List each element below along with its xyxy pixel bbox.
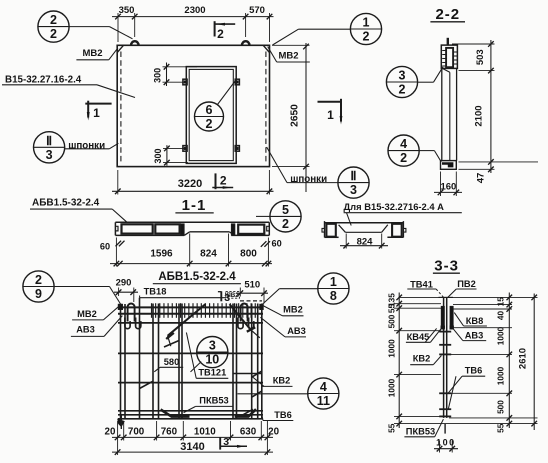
svg-text:2: 2 (50, 13, 57, 27)
callout circle 5/2 (270, 201, 301, 232)
dim 290 (114, 291, 138, 293)
variant section recess slant left (339, 225, 346, 233)
svg-text:3140: 3140 (180, 441, 204, 453)
PV2 sleeve right wall (450, 306, 453, 327)
svg-text:ТВ6: ТВ6 (274, 410, 292, 420)
svg-text:11: 11 (317, 394, 330, 408)
MV2 hairpin loop left (128, 304, 135, 322)
svg-text:1010: 1010 (194, 427, 216, 438)
dim 3220 (112, 190, 274, 192)
variant section left key notch (322, 228, 325, 232)
svg-text:ТВ41: ТВ41 (410, 279, 433, 289)
section 1-1 left key notch (115, 226, 118, 231)
embedded tab bottom-left (183, 146, 187, 152)
svg-text:В15-32.27.16-2.4: В15-32.27.16-2.4 (5, 74, 82, 85)
callout circle 1/2 (350, 13, 381, 44)
svg-text:2: 2 (35, 273, 42, 287)
svg-text:шпонки: шпонки (68, 140, 105, 151)
svg-text:9: 9 (35, 287, 42, 301)
left reference lines (399, 296, 439, 298)
right reference lines (453, 296, 538, 298)
section mark 3 (top) (220, 291, 222, 301)
svg-text:100: 100 (436, 438, 456, 448)
svg-text:Для В15-32.2716-2.4 А: Для В15-32.2716-2.4 А (344, 201, 445, 212)
section 2-2 body middle line (449, 72, 451, 160)
variant section top edge (325, 222, 404, 224)
section 1-1 rib block 2 (155, 224, 179, 233)
leader from circle 1/2 to right corner (298, 28, 350, 30)
svg-text:570: 570 (249, 5, 265, 16)
door opening inner frame (189, 69, 233, 160)
section mark 1 (right) (318, 101, 342, 103)
callout circle 6/2 in opening (195, 102, 224, 131)
svg-text:1: 1 (330, 275, 337, 289)
svg-text:МВ2: МВ2 (278, 51, 298, 62)
section 2-2 right dim chain (490, 40, 492, 173)
section 2-2 body taper (442, 68, 450, 72)
svg-text:160: 160 (440, 181, 456, 192)
leader from circle 2/2 to left lifting loop (69, 26, 109, 28)
svg-text:10: 10 (205, 353, 219, 367)
embedded tab bottom-right (235, 146, 239, 152)
embedded tab top-left (183, 79, 187, 85)
svg-text:1: 1 (327, 108, 334, 122)
callout circle II/3 right (338, 167, 369, 198)
svg-text:шпонки: шпонки (290, 174, 327, 185)
MV2 hairpin loop right (241, 304, 248, 322)
leader from circle 6/2 to tab (218, 81, 236, 105)
svg-text:630: 630 (240, 427, 257, 438)
dim 510 (236, 292, 268, 294)
dim 2610 chain (533, 294, 535, 431)
section 2-2 weld ticks left (442, 50, 446, 52)
svg-text:1000: 1000 (387, 378, 397, 397)
bar cross ticks (439, 331, 451, 333)
svg-text:2: 2 (399, 83, 406, 97)
svg-text:2: 2 (50, 27, 57, 41)
svg-text:ТВ18: ТВ18 (144, 286, 167, 296)
svg-text:20: 20 (105, 427, 116, 438)
fixing mark bottom-left (117, 419, 125, 428)
section 1-1 bottom edge left part (115, 234, 184, 236)
leader from circle 4/2 (419, 150, 434, 152)
svg-text:1596: 1596 (150, 249, 173, 260)
svg-text:55: 55 (387, 423, 397, 433)
svg-text:2: 2 (217, 27, 224, 41)
lifting loop right (242, 41, 250, 45)
dim 300 upper at opening (166, 63, 168, 87)
opening trimmer diagonal right (230, 304, 251, 330)
section 1-1 rib block 1 (122, 224, 153, 233)
opening trimmer diagonal left (168, 304, 206, 336)
svg-text:2: 2 (206, 117, 213, 131)
svg-text:55: 55 (495, 423, 505, 433)
section mark 1 (left) (85, 103, 111, 105)
svg-text:40: 40 (495, 311, 505, 321)
svg-text:3220: 3220 (178, 178, 202, 190)
variant section recess slant right (382, 225, 388, 233)
cage corner weld left (118, 304, 122, 309)
svg-text:3: 3 (350, 183, 357, 197)
svg-text:60: 60 (100, 242, 110, 252)
section 2-2 bottom embed plate (442, 162, 453, 167)
bar bottom continuation stub (444, 424, 446, 434)
callout circle 4/11 (308, 378, 339, 409)
svg-text:800: 800 (240, 249, 257, 260)
section 2-2 top rib inner channel (446, 48, 453, 67)
svg-text:АВ3: АВ3 (287, 326, 306, 336)
svg-text:8: 8 (330, 289, 337, 303)
svg-text:Ⅱ: Ⅱ (350, 169, 356, 183)
section 2-2 top rib box (441, 45, 457, 68)
sleeve bottom weld left (441, 326, 445, 329)
dim 300 lower at opening (166, 145, 168, 165)
section 2-2 body left line (441, 68, 443, 160)
svg-text:ПКВ53: ПКВ53 (199, 395, 228, 405)
svg-text:1000: 1000 (387, 339, 397, 358)
svg-text:1: 1 (93, 106, 100, 120)
hidden rib line left (dashed) (120, 52, 122, 164)
svg-text:КВ8: КВ8 (466, 316, 484, 326)
panel top-left corner chamfer (117, 45, 123, 52)
svg-text:МВ2: МВ2 (82, 48, 102, 59)
dim 3140 (112, 451, 273, 453)
section 3-3 left dim chain (398, 293, 400, 429)
dim 2650 (305, 43, 307, 192)
section 2-2 bottom box (441, 161, 457, 170)
embedded tab top-right (235, 79, 239, 85)
svg-text:АБВ1.5-32-2.4: АБВ1.5-32-2.4 (32, 197, 100, 208)
svg-text:Ⅱ: Ⅱ (46, 134, 52, 148)
leader from circle 1/8 (279, 288, 317, 290)
section mark 2 (bottom) (215, 173, 217, 189)
section 1-1 right end (268, 222, 270, 235)
bent plate PKV53 left (161, 410, 190, 417)
section 1-1 solid rib bar left of recess (181, 224, 184, 235)
sleeve bottom weld right (450, 326, 454, 329)
svg-text:5: 5 (282, 203, 289, 217)
callout circle 2/9 (23, 271, 54, 302)
svg-text:20: 20 (268, 427, 279, 438)
svg-text:4: 4 (400, 137, 407, 151)
svg-text:КВ2: КВ2 (273, 376, 291, 386)
svg-text:МВ2: МВ2 (77, 309, 97, 319)
lap splice marks (140, 381, 154, 388)
svg-text:3: 3 (223, 436, 229, 448)
svg-text:290: 290 (116, 277, 132, 288)
svg-text:1000: 1000 (495, 366, 505, 385)
svg-text:2100: 2100 (474, 105, 485, 126)
section 2-2 weld ticks right (453, 51, 457, 53)
section 1-1 right key notch (267, 226, 270, 231)
svg-text:2300: 2300 (184, 5, 205, 16)
svg-text:824: 824 (200, 249, 217, 260)
svg-text:АВ3: АВ3 (76, 325, 95, 335)
svg-text:760: 760 (161, 427, 178, 438)
leader from circle 2/9 (54, 286, 109, 288)
panel top-right corner chamfer (263, 45, 269, 52)
svg-text:300: 300 (153, 148, 163, 163)
section 1-1 rib block 3 (238, 225, 264, 234)
callout circle II/3 left (34, 132, 65, 163)
cage horizontal bars (118, 306, 263, 308)
PV2 top bar (140, 297, 225, 299)
section 1-1 recess floor (190, 231, 230, 233)
leader from circle 3/10 (191, 362, 202, 372)
svg-text:2-2: 2-2 (435, 6, 460, 23)
variant section right end (402, 221, 404, 237)
callout circle 1/8 (318, 273, 349, 304)
svg-text:6: 6 (206, 103, 213, 117)
svg-text:1000: 1000 (495, 326, 505, 345)
svg-text:АБВ1.5-32-2.4: АБВ1.5-32-2.4 (158, 271, 236, 283)
variant section rib block left (326, 224, 335, 237)
bar main vertical left line (443, 297, 445, 418)
svg-text:700: 700 (128, 427, 145, 438)
svg-text:1: 1 (363, 16, 370, 30)
cage vertical bars (120, 304, 122, 420)
bar top tick (439, 296, 454, 298)
door opening outer frame (186, 67, 236, 164)
variant section rib block right (392, 224, 402, 237)
bent plate PKV53 right (235, 409, 256, 416)
svg-text:АВ3: АВ3 (465, 331, 484, 341)
svg-text:2: 2 (282, 217, 289, 231)
cage bottom dimension chain (112, 436, 273, 438)
svg-text:4: 4 (320, 380, 327, 394)
variant section dim 824 (340, 245, 388, 247)
svg-text:60: 60 (271, 239, 281, 249)
variant section recess floor (345, 231, 381, 233)
svg-text:ТВ121: ТВ121 (198, 368, 226, 378)
svg-text:500: 500 (387, 314, 397, 328)
svg-text:500: 500 (495, 400, 505, 414)
callout circle 4/2 (388, 135, 419, 166)
svg-text:15: 15 (495, 297, 505, 307)
svg-text:1-1: 1-1 (182, 197, 207, 214)
svg-text:2: 2 (363, 30, 370, 44)
leader from circle 5/2 (256, 215, 270, 217)
leader from circle 4/11 (238, 393, 309, 395)
leader from circle 3/2 (418, 81, 433, 83)
svg-text:ПВ2: ПВ2 (457, 279, 476, 289)
section 1-1 left end (114, 222, 116, 235)
svg-text:3: 3 (46, 148, 53, 162)
variant section bottom edge left (325, 236, 339, 238)
svg-text:2610: 2610 (517, 348, 528, 369)
svg-text:503: 503 (475, 49, 486, 65)
section 1-1 recess slant right (229, 232, 235, 236)
svg-text:824: 824 (357, 237, 374, 248)
panel B15-32.27.16-2.4 outline (plan view) (117, 45, 269, 166)
section 1-1 solid rib bar right of recess (231, 224, 234, 235)
section 2-2 lifting hook stub (447, 38, 449, 45)
callout circle 2/2 (38, 11, 69, 42)
svg-text:47: 47 (476, 173, 487, 184)
dim 100 bottom (434, 448, 458, 450)
hidden rib line right (dashed) (265, 52, 267, 164)
svg-text:ТВ6: ТВ6 (465, 366, 483, 376)
variant section bottom edge right (387, 236, 403, 238)
svg-text:КВ2: КВ2 (413, 354, 431, 364)
svg-text:510: 510 (244, 279, 260, 290)
svg-text:3: 3 (399, 69, 406, 83)
PV2 top bar dashed part (240, 300, 262, 302)
svg-text:2: 2 (220, 174, 227, 188)
svg-text:580: 580 (164, 357, 180, 367)
section 1-1 bottom edge right part (231, 234, 269, 236)
svg-text:2: 2 (400, 151, 407, 165)
variant section right key notch (403, 228, 406, 232)
section mark 2 (top) (214, 21, 216, 36)
section 1-1 top edge (115, 221, 269, 223)
PV2 sleeve left wall (441, 306, 444, 327)
section 2-2 body right line (456, 68, 458, 160)
svg-text:МВ2: МВ2 (283, 305, 303, 315)
dimension chain top of plan (112, 16, 274, 18)
section 2-2 bottom dim 160 (434, 191, 462, 193)
callout circle 3/2 (386, 66, 417, 97)
section 1-1 dimension chain (110, 263, 272, 265)
svg-text:2650: 2650 (290, 104, 301, 127)
svg-text:300: 300 (153, 68, 163, 83)
boxed label PV2 (226, 292, 240, 299)
callout circle 3/10 (197, 337, 228, 368)
svg-text:ПКВ53: ПКВ53 (406, 426, 435, 436)
svg-text:3-3: 3-3 (434, 257, 459, 274)
mesh TV18 cross ticks (151, 303, 153, 318)
svg-text:55: 55 (387, 304, 397, 314)
bar main vertical right line (446, 297, 448, 418)
svg-text:350: 350 (119, 5, 135, 16)
section 3-3 right dim chain (508, 293, 510, 429)
svg-text:3: 3 (209, 339, 216, 353)
variant section left end (324, 221, 326, 237)
section 1-1 recess slant left (184, 232, 190, 236)
section mark 3 (bottom) (219, 437, 221, 450)
cage corner weld right (260, 304, 263, 309)
lifting loop left (131, 41, 139, 45)
